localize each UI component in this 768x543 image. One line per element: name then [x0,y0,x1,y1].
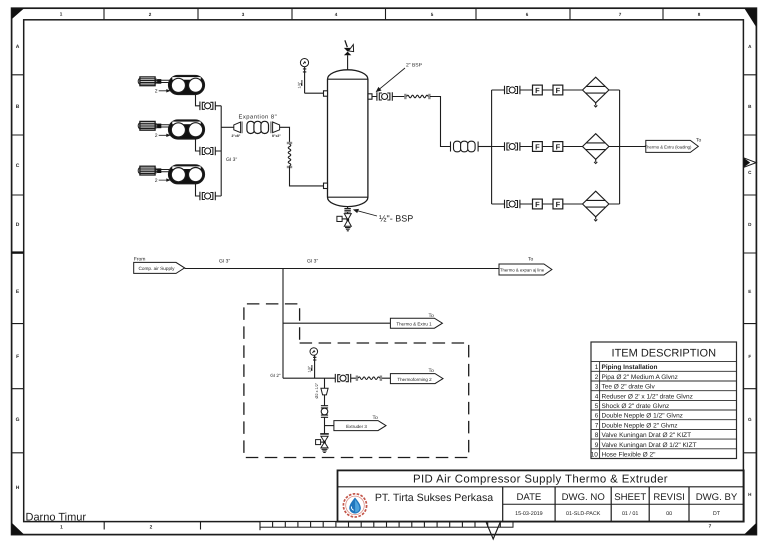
svg-text:5: 5 [595,403,599,410]
svg-text:Comp. air Supply: Comp. air Supply [139,266,176,271]
svg-text:Shock Ø 2" drate Glvnz: Shock Ø 2" drate Glvnz [602,403,670,410]
tank nozzle left top [324,91,328,96]
wire tank right outlet [372,96,405,98]
wire coil to tank lower nozzle [290,166,324,186]
svg-text:2: 2 [149,12,152,17]
tank T1 air receiver [327,70,367,207]
svg-text:B: B [16,104,20,110]
svg-text:Darno Timur: Darno Timur [26,511,87,523]
svg-text:10: 10 [591,452,599,459]
svg-text:Tee Ø 2" drate Glv: Tee Ø 2" drate Glv [602,384,656,391]
coupling tank outlet [377,92,392,101]
svg-text:9: 9 [595,442,599,449]
svg-text:Double Nepple Ø 1/2" Glvnz: Double Nepple Ø 1/2" Glvnz [602,413,683,420]
svg-text:To: To [528,257,534,263]
collector line right [619,90,621,204]
svg-text:6: 6 [595,413,599,420]
coupling branch mid [505,142,520,151]
svg-text:Thermo & expan aj line: Thermo & expan aj line [500,267,545,272]
flag To Thermo & Extru 1 [390,313,442,328]
compressor unit K1 [138,76,204,95]
right margin row letters [748,44,752,497]
flex hose tank outlet [404,94,430,99]
branch bottom: wire [492,203,620,205]
svg-text:Valve Kuningan Drat Ø 1/2" KIZ: Valve Kuningan Drat Ø 1/2" KIZT [602,442,697,449]
left margin ticks [12,75,24,453]
wire K3 outlet [196,184,222,196]
svg-text:GI 2": GI 2" [270,373,281,378]
drain flange bar [320,433,329,435]
main supply line [185,268,499,270]
bellows before manifold [451,141,479,152]
flag To Extruder 3 [334,415,386,430]
reducer 2 x 1/2 [315,382,328,398]
coupling K2 [200,147,215,156]
svg-text:2: 2 [150,525,153,531]
wire K2 outlet [196,139,222,151]
svg-text:C: C [16,163,20,169]
svg-text:To: To [696,138,702,144]
branch mid: wire [492,146,646,148]
left margin center tick [12,251,24,253]
svg-text:Pipa Ø 2" Medium A Glvnz: Pipa Ø 2" Medium A Glvnz [602,374,678,381]
pressure gauge PG1 [298,59,309,94]
wire to drop [430,97,450,147]
svg-text:1: 1 [60,525,63,531]
svg-text:Piping Installation: Piping Installation [602,364,658,371]
drain valve bottom [316,436,329,452]
top margin column numbers [60,12,701,18]
filter F4 mid [553,142,563,152]
svg-text:01 / 01: 01 / 01 [622,511,639,517]
filter F2 top [553,85,563,95]
expansion bellows [247,121,269,133]
svg-text:G: G [16,417,20,423]
wire union down [324,418,326,434]
svg-text:8: 8 [595,432,599,439]
reducer 2x8 left [232,122,243,138]
svg-text:3: 3 [242,12,245,17]
bottom margin ticks [104,522,200,530]
dryer diamond mid [583,134,609,164]
svg-text:F: F [748,354,751,359]
tank nozzle left bottom [324,183,328,188]
svg-text:4: 4 [335,12,338,17]
svg-text:1: 1 [595,364,599,371]
svg-text:Hose Flexible Ø 2": Hose Flexible Ø 2" [602,452,657,459]
svg-text:A: A [16,44,20,50]
svg-text:Thermo & Extru (loading): Thermo & Extru (loading) [645,144,692,149]
wire reducer to union [324,395,326,406]
reducer 8x2 right [271,122,281,138]
coupling branch bottom [505,200,520,209]
compressor unit K2 [138,120,204,139]
union coupling [321,406,328,418]
svg-text:2"x8": 2"x8" [232,134,241,138]
svg-text:DWG. BY: DWG. BY [696,492,738,503]
label 1/2" BSP with leader [354,209,413,223]
svg-text:DWG. NO: DWG. NO [562,492,605,503]
coupling K3 [200,192,215,201]
wire expansion to coil [280,127,290,144]
drop branch wire [324,378,326,388]
svg-text:H: H [16,485,20,491]
table row numbers [591,364,599,458]
svg-text:Expantion 8": Expantion 8" [239,114,278,121]
branch 1 wire [283,322,390,324]
svg-text:PT. Tirta Sukses Perkasa: PT. Tirta Sukses Perkasa [375,492,493,504]
TABLE [591,342,737,459]
filter F3 mid [533,142,543,152]
label 2" BSP with leader [377,63,423,92]
top margin ticks [104,8,663,20]
svg-text:SHEET: SHEET [614,492,646,503]
svg-text:GI 3": GI 3" [226,157,237,163]
tank drain fitting [344,207,350,214]
wire header to expansion [221,126,234,128]
svg-text:GI 3": GI 3" [307,258,318,264]
dashed battery-limit box [244,304,469,458]
title block grid [338,470,744,521]
compressor unit K3 [138,165,204,184]
svg-text:DATE: DATE [516,492,541,503]
wire K1 outlet [196,94,222,105]
svg-text:8: 8 [698,12,701,17]
safety relief valve [344,40,354,55]
svg-text:G: G [748,417,752,422]
svg-text:Reduser Ø 2' x 1/2" drate Glvn: Reduser Ø 2' x 1/2" drate Glvnz [602,393,693,400]
tee drop from main line [282,269,284,379]
corner trim mark bottom-left [12,523,25,535]
filter F6 bottom [553,199,563,209]
vertical flex hose coil [287,142,292,168]
right margin orientation arrow [744,158,757,168]
svg-text:4: 4 [595,393,599,400]
dryer diamond bottom [583,191,609,221]
svg-text:6: 6 [526,12,529,17]
svg-text:REVISI: REVISI [653,492,684,503]
branch top: wire [492,89,620,91]
svg-text:Thermoforming 2: Thermoforming 2 [397,377,432,382]
svg-text:7: 7 [619,12,622,17]
flag To Thermo & Extru loading [645,138,702,153]
flex hose branch 2 [356,376,382,381]
item description table grid [591,342,737,459]
svg-text:F: F [16,354,19,360]
TITLEBLOCK [338,470,744,521]
svg-text:2: 2 [595,374,599,381]
flag To Thermoforming 2 [390,368,443,383]
svg-text:Valve Kuningan Drat Ø 2" KIZT: Valve Kuningan Drat Ø 2" KIZT [602,432,692,439]
wire header manifold [220,106,222,196]
manifold header right [491,90,493,204]
svg-text:Ø2 x 1/2": Ø2 x 1/2" [315,382,319,398]
filter F1 top [533,85,543,95]
corner trim mark bottom-right [744,523,756,535]
coupling K1 [200,102,215,111]
svg-text:½"- BSP: ½"- BSP [379,214,413,224]
svg-text:7: 7 [595,422,599,429]
tank drain valve [337,214,351,231]
svg-text:DT: DT [713,511,721,517]
flag From Comp air Supply [134,256,185,273]
svg-text:1: 1 [60,12,63,17]
coupling branch 2 [335,374,350,383]
tank top stub [347,55,349,70]
pressure gauge PG2 [308,348,318,379]
svg-text:From: From [134,256,146,262]
bottom margin numbers [60,524,712,531]
dryer diamond top [583,77,609,107]
flag To thermo expansion line [499,257,552,276]
svg-text:Double Nepple Ø 2" Glvnz: Double Nepple Ø 2" Glvnz [602,422,678,429]
svg-text:D: D [16,222,20,228]
table row items [602,364,697,458]
coupling branch top [505,86,520,95]
svg-text:1/4": 1/4" [298,81,302,88]
filter F5 bottom [533,199,543,209]
svg-text:GI 3": GI 3" [219,258,230,264]
tank nozzle right top [368,94,372,99]
branch 3 wire [325,425,334,427]
svg-text:8"x2": 8"x2" [272,134,281,138]
svg-text:00: 00 [666,511,672,517]
svg-text:E: E [748,289,751,294]
branch 2 wire [283,377,390,379]
svg-text:PID Air Compressor Supply The: PID Air Compressor Supply Thermo & Extru… [413,474,668,486]
svg-text:3: 3 [595,384,599,391]
svg-text:2" BSP: 2" BSP [406,63,423,69]
company logo [343,494,366,517]
left margin row letters [16,44,20,491]
svg-text:ITEM DESCRIPTION: ITEM DESCRIPTION [612,348,717,360]
svg-text:15-03-2019: 15-03-2019 [515,511,543,517]
wire gauge to tank [305,92,324,94]
corner trim mark top-left [12,8,25,19]
svg-text:Thermo & Extru 1: Thermo & Extru 1 [396,321,432,326]
corner trim mark top-right [744,8,756,27]
right margin ticks [743,75,756,453]
bottom scale strip [260,522,513,531]
svg-text:01-SLD-PACK: 01-SLD-PACK [566,511,601,517]
bottom centering V mark [486,522,500,539]
wire bellows to manifold [478,146,492,148]
svg-text:Extruder 3: Extruder 3 [346,424,367,429]
svg-text:7: 7 [709,524,712,530]
svg-text:5: 5 [431,12,434,17]
